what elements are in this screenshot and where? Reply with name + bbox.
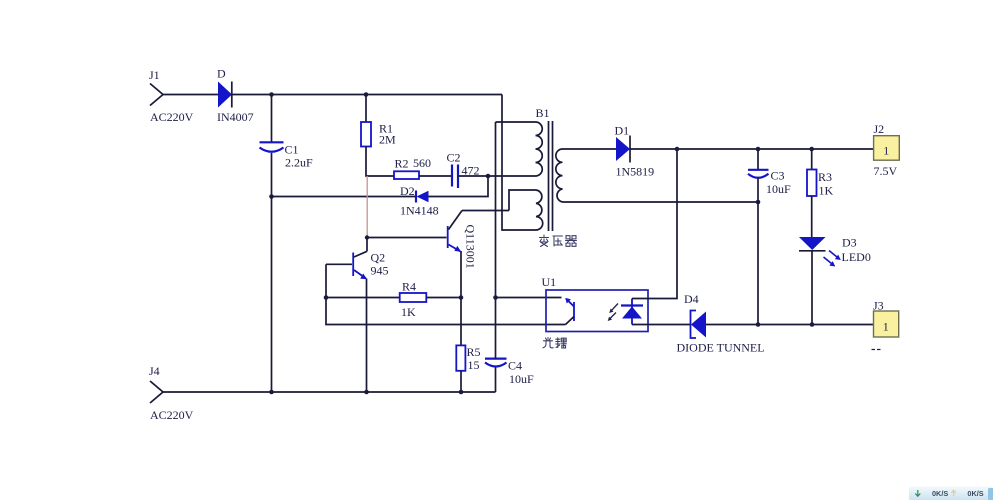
svg-text:C1: C1 <box>285 143 299 157</box>
svg-text:D: D <box>217 67 226 81</box>
svg-text:J1: J1 <box>149 68 160 82</box>
U1 light arrows <box>608 304 618 322</box>
junction D1 node <box>675 147 680 152</box>
capacitor C2 <box>451 165 453 187</box>
wire node to R5 <box>460 298 462 346</box>
wire Q1 base row <box>367 237 447 239</box>
svg-text:AC220V: AC220V <box>150 408 194 422</box>
resistor R5 <box>456 345 465 370</box>
svg-text:DIODE TUNNEL: DIODE TUNNEL <box>677 341 765 355</box>
junction Q1 base node <box>365 235 369 239</box>
svg-text:R5: R5 <box>467 345 481 359</box>
led D3 <box>799 237 826 250</box>
junction C3 top node <box>756 147 761 152</box>
capacitor C1 <box>260 141 284 143</box>
svg-text:10uF: 10uF <box>766 182 791 196</box>
wire R3 top lead <box>811 149 813 170</box>
svg-text:Q2: Q2 <box>371 251 386 265</box>
wire C1 to node C <box>271 153 273 197</box>
junction J3 row at D3 branch <box>810 322 815 327</box>
svg-text:B1: B1 <box>536 106 550 120</box>
svg-text:Q113001: Q113001 <box>464 225 478 269</box>
wire secondary top to D1 <box>563 148 617 150</box>
wire D to node A <box>232 94 272 96</box>
svg-text:IN4007: IN4007 <box>217 110 254 124</box>
junction secondary bottom at C3 <box>756 200 761 205</box>
wire R4 node to U1 pin row <box>326 298 566 325</box>
wire R3 to D3 <box>811 196 813 237</box>
connector J2 <box>874 136 900 161</box>
svg-text:C4: C4 <box>508 359 522 373</box>
wire D2 to riser <box>429 176 489 197</box>
wire Q2 emitter down <box>366 279 368 393</box>
U1 phototransistor <box>573 302 575 321</box>
junction primary bottom node <box>486 174 491 179</box>
wire node C to bottom rail <box>271 197 273 393</box>
junction node C <box>269 194 274 199</box>
wire R1 to R2 <box>366 147 394 177</box>
wire C2 to primary winding bottom <box>458 175 536 177</box>
junction node A <box>269 92 274 97</box>
connector J1 <box>150 84 163 106</box>
svg-text:C3: C3 <box>771 169 785 183</box>
wire primary winding 1 top down to C4 <box>495 122 497 359</box>
wire C3 bottom lead <box>757 178 759 202</box>
svg-text:1N4148: 1N4148 <box>400 204 439 218</box>
wire C3 top lead <box>757 149 759 170</box>
svg-text:J4: J4 <box>149 364 160 378</box>
svg-text:0K/S: 0K/S <box>967 489 983 498</box>
wire C4 to bottom rail <box>495 367 497 393</box>
label net stub under J3 <box>872 349 881 351</box>
connector J3 <box>874 311 899 337</box>
wire node B down to R1 <box>365 95 367 123</box>
diode D1 <box>616 137 630 161</box>
wire C3 node down to J3 row <box>757 202 759 325</box>
resistor R1 <box>361 122 371 147</box>
wire Q1 collector to winding 2 <box>462 210 509 212</box>
svg-text:R4: R4 <box>402 280 416 294</box>
wire U1 pin3 up to D1 output node <box>632 149 677 299</box>
wire to U1 left top pin <box>496 297 562 299</box>
label optocoupler (Chinese) <box>543 338 566 349</box>
svg-text:R3: R3 <box>818 170 832 184</box>
svg-text:2M: 2M <box>379 133 396 147</box>
wire R5 to bottom rail <box>460 371 462 392</box>
label transformer (Chinese) <box>540 235 577 247</box>
wire Q2 base down to R4 node <box>325 264 327 297</box>
svg-text:U1: U1 <box>542 275 557 289</box>
svg-text:1K: 1K <box>819 184 834 198</box>
diode D2 <box>415 191 417 203</box>
resistor R3 <box>807 170 817 197</box>
junction R4 right node <box>459 295 464 300</box>
svg-text:2.2uF: 2.2uF <box>285 156 313 170</box>
svg-text:10uF: 10uF <box>509 372 534 386</box>
svg-text:J2: J2 <box>874 122 885 136</box>
svg-text:1: 1 <box>883 320 889 334</box>
connector J4 <box>150 381 163 403</box>
junction bottom rail at R5 <box>459 390 464 395</box>
optocoupler U1 box <box>546 290 648 332</box>
U1 LED <box>631 299 633 325</box>
svg-text:945: 945 <box>371 264 389 278</box>
resistor R4 <box>400 293 427 302</box>
svg-text:C2: C2 <box>447 151 461 165</box>
transformer B1 core <box>548 121 550 231</box>
transistor Q2 <box>352 253 354 277</box>
wire primary feed vertical <box>502 95 536 231</box>
svg-text:0K/S: 0K/S <box>932 489 948 498</box>
wire Q2 collector up to base node <box>366 238 368 252</box>
transformer B1 secondary winding <box>556 149 563 202</box>
svg-text:D3: D3 <box>842 236 857 250</box>
svg-text:1N5819: 1N5819 <box>616 165 655 179</box>
junction U1 top pin node <box>493 295 498 300</box>
svg-text:D4: D4 <box>684 292 699 306</box>
wire node A to node B <box>272 94 367 96</box>
junction J3 row at C3 branch <box>756 322 761 327</box>
bottom rail wire <box>163 391 496 393</box>
junction bottom rail at Q2 <box>364 390 369 395</box>
svg-text:7.5V: 7.5V <box>874 164 898 178</box>
wire R2 to C2 <box>419 175 451 177</box>
wire secondary bottom row <box>563 201 759 203</box>
wire R4 row left <box>326 297 400 299</box>
junction bottom rail at C1 branch <box>269 390 274 395</box>
red feedback wire <box>366 176 368 238</box>
diode D <box>218 82 232 108</box>
wire D1 to J2 <box>630 148 874 150</box>
svg-text:1K: 1K <box>401 305 416 319</box>
svg-text:J3: J3 <box>873 299 884 313</box>
svg-text:D1: D1 <box>615 124 630 138</box>
svg-text:LED0: LED0 <box>842 250 871 264</box>
wire U1 pin4 to D4 <box>632 324 691 326</box>
transformer B1 primary winding 2 <box>509 190 536 211</box>
status bar overlay <box>909 487 993 500</box>
wire J1 to diode D <box>163 94 218 96</box>
wire D2 row left <box>272 196 416 198</box>
capacitor C4 <box>485 358 507 360</box>
junction R4 left node <box>324 295 329 300</box>
wire node A down to C1 <box>271 95 273 143</box>
transistor Q1 <box>447 226 449 248</box>
wire D4 to J3 row <box>706 324 874 326</box>
svg-text:D2: D2 <box>400 184 415 198</box>
svg-text:AC220V: AC220V <box>150 110 194 124</box>
transformer B1 primary winding 1 <box>496 121 536 123</box>
wire D3 to J3 row <box>811 251 813 325</box>
svg-text:15: 15 <box>468 358 480 372</box>
junction R3 top node <box>809 147 814 152</box>
diode D4 <box>691 311 697 339</box>
capacitor C3 <box>748 169 769 171</box>
junction node B <box>364 92 369 97</box>
wire top rail node B to primary feed corner <box>366 94 502 96</box>
svg-text:1: 1 <box>883 144 889 158</box>
resistor R2 <box>394 171 419 179</box>
svg-text:R2: R2 <box>395 157 409 171</box>
wire Q2 base <box>326 263 352 265</box>
wire Q1 emitter down <box>460 251 462 298</box>
wire R4 to Q1 emitter node <box>426 297 461 299</box>
svg-text:560: 560 <box>413 156 431 170</box>
